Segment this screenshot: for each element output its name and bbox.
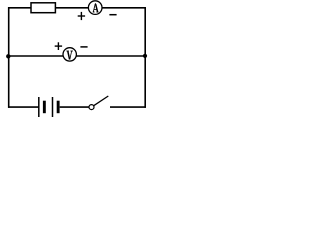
battery cell 1 short thick plate <box>43 101 46 114</box>
battery cell 2 short thick plate <box>57 101 60 114</box>
label + (voltmeter plus) <box>55 42 62 50</box>
node junction left <box>6 54 10 58</box>
wire bottom middle segment <box>60 106 89 108</box>
wire left <box>8 7 10 108</box>
battery cell 1 long plate <box>38 97 40 117</box>
battery cell 2 long plate <box>52 97 54 117</box>
label - (ammeter minus) <box>109 14 116 16</box>
wire bottom right segment <box>110 106 146 108</box>
wire right <box>144 7 146 108</box>
label + (ammeter plus) <box>78 12 85 20</box>
resistor R <box>31 3 55 13</box>
node junction right <box>143 54 147 58</box>
wire bottom left segment <box>8 106 39 108</box>
wire top <box>8 7 146 9</box>
ammeter U A <box>88 1 102 15</box>
label - (voltmeter minus) <box>80 46 87 48</box>
switch S <box>89 96 108 110</box>
wire middle branch <box>8 55 146 57</box>
voltmeter U V <box>63 48 76 61</box>
